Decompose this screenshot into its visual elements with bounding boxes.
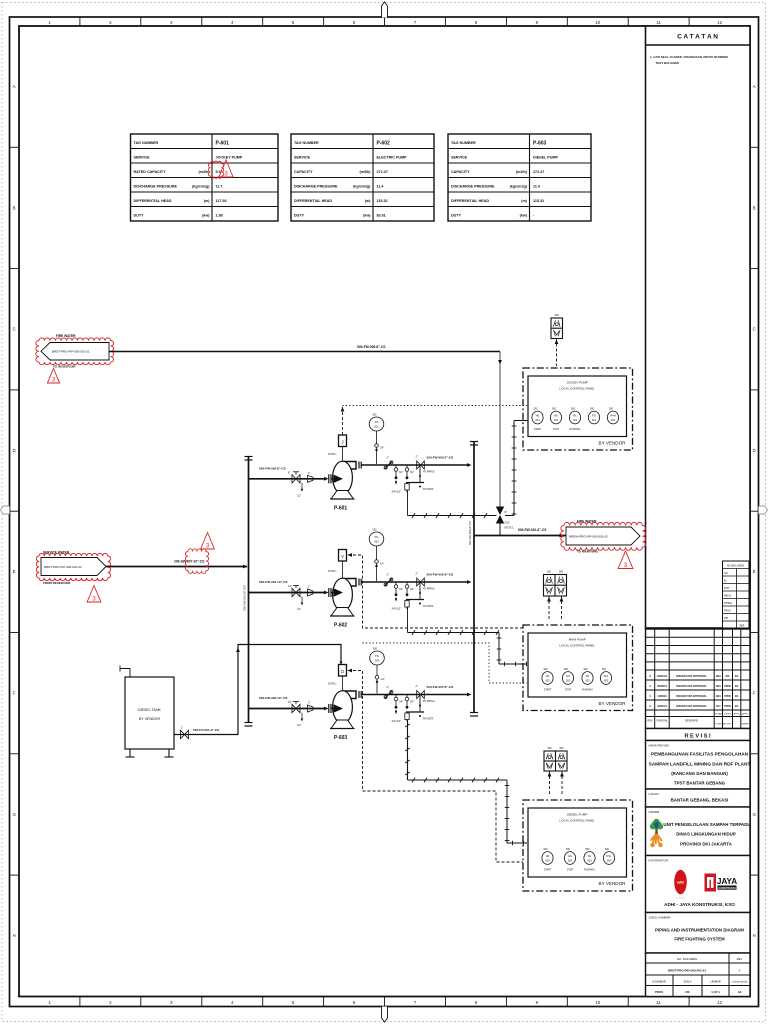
svg-text:10": 10"	[288, 700, 292, 704]
svg-text:RL: RL	[586, 674, 590, 678]
svg-text:(kg/cm2g): (kg/cm2g)	[353, 185, 371, 189]
svg-text:500-FW-005-8"-CS: 500-FW-005-8"-CS	[427, 573, 454, 577]
svg-text:PG: PG	[375, 654, 379, 658]
svg-text:BY VENDOR: BY VENDOR	[139, 717, 161, 721]
svg-text:INST: INST	[724, 587, 730, 590]
svg-text:500: 500	[560, 747, 565, 750]
revision history table	[646, 629, 751, 729]
jaya logo	[705, 874, 717, 892]
P-601 power riser	[513, 421, 515, 516]
discharge header line	[473, 441, 475, 713]
svg-text:DIFFERENTIAL HEAD: DIFFERENTIAL HEAD	[451, 199, 489, 203]
svg-text:8": 8"	[505, 510, 507, 514]
svg-text:START: START	[544, 689, 552, 692]
csc valve	[496, 507, 504, 516]
ruler column ticks and numbers	[79, 17, 81, 26]
svg-text:10: 10	[595, 20, 600, 25]
svg-text:PIPING: PIPING	[724, 602, 732, 605]
svg-text:JUDUL GAMBAR :: JUDUL GAMBAR :	[649, 916, 673, 920]
svg-text:V: V	[341, 554, 344, 559]
svg-text:500: 500	[548, 747, 553, 750]
svg-text:ISSUED FOR APPROVAL: ISSUED FOR APPROVAL	[676, 694, 707, 698]
diesel panel annunciators	[544, 751, 567, 771]
svg-text:500-FW-002-8"-CS: 500-FW-002-8"-CS	[259, 466, 286, 470]
catatan box	[646, 26, 751, 628]
svg-text:ADA: ADA	[716, 675, 721, 678]
svg-text:H: H	[13, 933, 16, 938]
svg-text:500: 500	[605, 848, 610, 851]
svg-text:500: 500	[552, 408, 557, 411]
svg-text:HS: HS	[536, 414, 540, 418]
pump P-602	[342, 579, 357, 587]
svg-text:DA: DA	[735, 685, 739, 688]
svg-text:11: 11	[657, 20, 662, 25]
fw down arrow	[498, 360, 502, 365]
svg-text:272.47: 272.47	[533, 170, 544, 174]
svg-text:BY VENDOR: BY VENDOR	[599, 701, 627, 706]
svg-text:NOTE 1: NOTE 1	[505, 527, 515, 530]
svg-text:adhi: adhi	[677, 881, 684, 885]
revision triangle fw inlet	[47, 369, 59, 384]
svg-text:UNIT PENGELOLAAN SAMPAH TERPAD: UNIT PENGELOLAAN SAMPAH TERPADU	[663, 822, 750, 827]
svg-text:PROVINSI DKI JAKARTA: PROVINSI DKI JAKARTA	[680, 842, 732, 847]
owner box	[646, 807, 751, 856]
svg-text:BY VENDOR: BY VENDOR	[599, 881, 627, 886]
svg-text:LOCAL CONTROL PANEL: LOCAL CONTROL PANEL	[559, 644, 595, 648]
svg-text:500: 500	[547, 571, 552, 574]
svg-text:SERVICE: SERVICE	[134, 156, 151, 160]
svg-text:HS: HS	[546, 674, 550, 678]
svg-text:RUNNING: RUNNING	[584, 870, 595, 872]
svg-text:C: C	[13, 327, 16, 332]
svg-text:DUTY: DUTY	[134, 214, 145, 218]
svg-text:001: 001	[374, 424, 379, 428]
svg-text:PA INSTR: PA INSTR	[423, 718, 434, 721]
svg-text:200-SW-007-10"-CS: 200-SW-007-10"-CS	[174, 560, 205, 564]
svg-text:(kw): (kw)	[202, 214, 210, 218]
svg-text:2": 2"	[416, 455, 418, 459]
svg-text:LOCAL CONTROL PANEL: LOCAL CONTROL PANEL	[559, 387, 595, 391]
service water flag	[41, 558, 106, 576]
svg-text:500-FW-009-8"-CS: 500-FW-009-8"-CS	[468, 521, 472, 545]
svg-text:PAH: PAH	[610, 414, 615, 418]
P-602 power riser	[498, 633, 500, 665]
svg-text:HS: HS	[568, 854, 572, 858]
svg-text:001: 001	[535, 418, 540, 422]
redline index mini table	[723, 561, 750, 628]
svg-text:ISSUED FOR APPROVAL: ISSUED FOR APPROVAL	[676, 674, 707, 678]
svg-text:3/4"x1/2": 3/4"x1/2"	[392, 720, 402, 723]
svg-text:500: 500	[586, 848, 591, 851]
svg-text:2": 2"	[387, 685, 389, 689]
svg-text:12: 12	[717, 1000, 722, 1005]
svg-text:B: B	[13, 205, 16, 210]
svg-text:500: 500	[609, 408, 614, 411]
svg-text:(kw): (kw)	[520, 214, 528, 218]
svg-text:TO MAIN RING: TO MAIN RING	[577, 550, 599, 554]
suction header bottom break	[245, 722, 253, 724]
svg-text:F: F	[753, 691, 756, 696]
diesel tank vent	[120, 669, 130, 678]
pressure gauge PG-002	[369, 532, 384, 546]
svg-text:1/4": 1/4"	[381, 678, 385, 681]
catatan header line	[646, 44, 751, 46]
svg-text:1/4": 1/4"	[380, 563, 384, 566]
diesel tank legs	[129, 749, 131, 757]
outlet line	[474, 535, 566, 537]
svg-text:500: 500	[602, 668, 607, 671]
svg-text:P-601: P-601	[334, 506, 348, 512]
svg-text:RL: RL	[588, 854, 592, 858]
svg-text:500-FW-007-8"-CS: 500-FW-007-8"-CS	[427, 685, 454, 689]
svg-text:003: 003	[607, 858, 612, 862]
fuel oil line	[174, 645, 341, 735]
svg-text:PAL: PAL	[604, 674, 609, 678]
diesel pump local control panel	[523, 800, 633, 891]
svg-text:1.88: 1.88	[216, 214, 223, 218]
svg-text:002: 002	[545, 678, 550, 682]
svg-text:DUTY: DUTY	[294, 214, 305, 218]
svg-text:500-FW-006-10"-CS: 500-FW-006-10"-CS	[259, 696, 287, 700]
svg-text:003: 003	[375, 658, 380, 662]
svg-text:LOCAL CONTROL PANEL: LOCAL CONTROL PANEL	[559, 819, 595, 823]
svg-text:NS: NS	[686, 990, 690, 994]
svg-text:002: 002	[566, 678, 571, 682]
svg-text:PIPIN: PIPIN	[724, 685, 731, 688]
svg-text:500-SW-001-10"-CS: 500-SW-001-10"-CS	[243, 585, 247, 611]
svg-text:NOTE 1: NOTE 1	[328, 570, 337, 573]
svg-text:ADA: ADA	[716, 695, 721, 698]
sw label cloud	[185, 549, 208, 574]
svg-text:NOTE 1: NOTE 1	[328, 683, 337, 686]
revisi band	[646, 729, 751, 741]
service water cloud	[36, 553, 110, 580]
discharge line P-603	[362, 694, 469, 696]
suction branch P-603	[249, 708, 326, 710]
svg-text:ISSUED FOR APPROVAL: ISSUED FOR APPROVAL	[676, 684, 707, 688]
svg-text:R E V I S I: R E V I S I	[684, 734, 711, 740]
main pump local control panel	[523, 625, 633, 711]
svg-text:OWNER :: OWNER :	[649, 810, 661, 814]
svg-text:001: 001	[554, 418, 559, 422]
svg-text:CAPACITY: CAPACITY	[294, 170, 313, 174]
svg-text:SERVICE: SERVICE	[451, 156, 468, 160]
PS signal dotted	[363, 643, 528, 683]
svg-text:DIFFERENTIAL HEAD: DIFFERENTIAL HEAD	[294, 199, 332, 203]
discharge header bottom break	[470, 712, 478, 714]
P-602 drain line	[408, 632, 500, 634]
svg-text:29/01/22: 29/01/22	[657, 675, 667, 678]
svg-text:001: 001	[611, 418, 616, 422]
discharge header top break	[470, 441, 478, 443]
svg-text:500: 500	[566, 848, 571, 851]
svg-text:500-FW-008-8"-CS: 500-FW-008-8"-CS	[357, 345, 386, 349]
svg-text:BRDT-PRO-PID-500-001-01: BRDT-PRO-PID-500-001-01	[668, 969, 706, 973]
svg-text:C: C	[753, 327, 756, 332]
svg-text:RL: RL	[573, 414, 577, 418]
svg-text:3": 3"	[308, 702, 310, 705]
svg-text:PEMBANGUNAN FASILITAS PENGOLAH: PEMBANGUNAN FASILITAS PENGOLAHAN	[651, 752, 749, 757]
revision cloud on 5.6 value	[208, 161, 223, 178]
svg-text:117.93: 117.93	[216, 199, 227, 203]
D signal dashes	[348, 671, 523, 863]
svg-text:START: START	[534, 428, 542, 431]
svg-text:3/4": 3/4"	[399, 471, 403, 474]
svg-text:E: E	[13, 569, 16, 574]
svg-text:REV: REV	[647, 720, 652, 723]
svg-text:DIGAM: DIGAM	[715, 713, 722, 716]
svg-text:11.7: 11.7	[216, 185, 223, 189]
diesel annunciator signals	[549, 771, 551, 796]
suction branch P-602	[249, 592, 326, 594]
svg-text:DIESEL PUMP: DIESEL PUMP	[533, 156, 558, 160]
document number block	[646, 953, 751, 997]
svg-text:1": 1"	[181, 726, 183, 730]
svg-text:FROM RESERVOIR: FROM RESERVOIR	[43, 581, 71, 585]
revision triangle outlet	[618, 551, 633, 569]
svg-text:(m): (m)	[365, 199, 372, 203]
jockey alarm annunciator	[551, 318, 563, 339]
main annunciator signals	[548, 596, 550, 621]
svg-text:PIPIN: PIPIN	[724, 705, 731, 708]
svg-text:3/4": 3/4"	[399, 588, 403, 591]
svg-text:1. CAR SEAL CLOSED, DIGUNAKAN: 1. CAR SEAL CLOSED, DIGUNAKAN UNTUK RUNN…	[650, 55, 729, 59]
svg-text:NO. DOKUMEN: NO. DOKUMEN	[677, 957, 697, 961]
svg-text:5.6: 5.6	[216, 170, 221, 174]
svg-text:RUNNING: RUNNING	[582, 690, 593, 692]
spec table P-601	[131, 134, 279, 221]
svg-text:MAIN PUMP: MAIN PUMP	[569, 638, 586, 642]
svg-text:BRDW-PRO-PIP-500-001-02: BRDW-PRO-PIP-500-001-02	[569, 534, 608, 538]
svg-text:SKALA: SKALA	[683, 981, 691, 984]
svg-text:115.32: 115.32	[377, 199, 388, 203]
P-601 drain line	[408, 515, 497, 517]
svg-text:D: D	[341, 669, 344, 674]
svg-text:F: F	[13, 691, 16, 696]
svg-text:BRDT-PRO-PIP-300-001-02: BRDT-PRO-PIP-300-001-02	[44, 565, 82, 569]
svg-text:PIPING AND INSTRUMENTATION DIA: PIPING AND INSTRUMENTATION DIAGRAM	[655, 928, 744, 933]
svg-text:KONTRAKTOR: KONTRAKTOR	[715, 723, 731, 726]
svg-text:8": 8"	[288, 470, 290, 474]
nama proyek box	[646, 741, 751, 790]
P-603 drain line	[407, 720, 409, 781]
svg-text:G: G	[13, 812, 16, 817]
pump P-603	[342, 691, 357, 699]
kontraktor box	[646, 856, 751, 913]
svg-text:PG: PG	[375, 535, 379, 539]
svg-text:500-FW-004-10"-CS: 500-FW-004-10"-CS	[259, 580, 287, 584]
svg-text:PU PIPING: PU PIPING	[423, 589, 435, 591]
svg-text:BRDT-PRO-PIP-500-001-01: BRDT-PRO-PIP-500-001-01	[52, 350, 90, 354]
svg-text:MECH: MECH	[724, 595, 731, 598]
svg-text:500: 500	[559, 571, 564, 574]
svg-text:TEST BULANAN: TEST BULANAN	[656, 61, 679, 65]
svg-text:RATED CAPACITY: RATED CAPACITY	[134, 170, 167, 174]
svg-text:TAG NUMBER: TAG NUMBER	[294, 141, 319, 145]
svg-text:P-602: P-602	[334, 623, 348, 629]
jockey pump local control panel	[523, 368, 633, 450]
svg-text:RUNNING: RUNNING	[570, 429, 581, 431]
svg-text:DIESEL TANK: DIESEL TANK	[138, 708, 162, 712]
svg-text:002: 002	[585, 678, 590, 682]
svg-text:TO RESERVOIR: TO RESERVOIR	[53, 365, 76, 369]
fuel oil valve	[181, 730, 189, 738]
pump P-601	[342, 462, 357, 470]
svg-text:DIPER: DIPER	[724, 714, 731, 716]
svg-text:002: 002	[374, 539, 379, 543]
svg-text:JOCKEY PUMP: JOCKEY PUMP	[216, 156, 243, 160]
svg-text:001: 001	[592, 418, 597, 422]
svg-text:TAG NUMBER: TAG NUMBER	[451, 141, 476, 145]
svg-text:H: H	[753, 933, 756, 938]
svg-text:3/4": 3/4"	[410, 701, 414, 704]
svg-text:UKURAN KERTAS: UKURAN KERTAS	[732, 981, 749, 984]
svg-text:KONTRAKTOR :: KONTRAKTOR :	[649, 859, 670, 863]
svg-text:11: 11	[657, 1000, 662, 1005]
adhi logo	[674, 870, 687, 894]
owner tree logo	[650, 824, 656, 830]
svg-text:HS: HS	[546, 854, 550, 858]
left centering mark	[1, 506, 10, 514]
svg-text:3/4": 3/4"	[399, 701, 403, 704]
svg-text:E: E	[753, 569, 756, 574]
svg-text:PU PIPING: PU PIPING	[423, 472, 435, 474]
suction header line	[248, 456, 250, 722]
svg-text:3/4"x1/2": 3/4"x1/2"	[392, 491, 402, 494]
svg-text:A: A	[753, 84, 756, 89]
svg-text:500: 500	[373, 529, 378, 532]
svg-text:D: D	[13, 448, 16, 453]
svg-text:1/2": 1/2"	[297, 724, 301, 727]
svg-text:500: 500	[555, 314, 560, 317]
svg-text:(m3/h): (m3/h)	[359, 170, 371, 174]
svg-text:500: 500	[373, 648, 378, 651]
svg-text:(kw): (kw)	[363, 214, 371, 218]
svg-text:STOP: STOP	[567, 870, 574, 872]
svg-text:ELECTRIC PUMP: ELECTRIC PUMP	[377, 156, 408, 160]
diesel driver box D	[339, 665, 347, 677]
svg-text:TAG NUMBER: TAG NUMBER	[134, 141, 159, 145]
svg-text:P-603: P-603	[334, 735, 348, 741]
svg-text:JAYA: JAYA	[717, 877, 737, 886]
svg-text:1 OF 1: 1 OF 1	[711, 990, 720, 994]
svg-text:PIB: PIB	[724, 617, 728, 620]
svg-text:500: 500	[564, 668, 569, 671]
suction header top break	[245, 456, 253, 458]
svg-text:OWNER: OWNER	[741, 724, 749, 726]
svg-text:DESKRIPSI: DESKRIPSI	[685, 720, 699, 723]
lokasi box	[646, 789, 751, 807]
svg-text:1/2": 1/2"	[297, 494, 301, 497]
bottom centering mark	[382, 1007, 388, 1023]
svg-text:PA INSTR: PA INSTR	[423, 488, 434, 491]
svg-text:ADA: ADA	[716, 685, 721, 688]
svg-text:3": 3"	[308, 586, 310, 589]
svg-text:2": 2"	[416, 684, 418, 688]
svg-text:ADHI - JAYA KONSTRUKSI, KSO: ADHI - JAYA KONSTRUKSI, KSO	[664, 902, 735, 907]
svg-text:11.4: 11.4	[377, 185, 385, 189]
svg-text:APPR: APPR	[734, 713, 740, 716]
svg-text:3": 3"	[308, 472, 310, 475]
svg-text:DISCHARGE PRESSURE: DISCHARGE PRESSURE	[294, 185, 338, 189]
P-603 power riser	[506, 780, 508, 843]
svg-text:DUTY: DUTY	[451, 214, 462, 218]
svg-text:NO DWG INDEX: NO DWG INDEX	[727, 565, 745, 567]
svg-text:PROS: PROS	[724, 610, 731, 613]
fire water inlet flag	[41, 343, 109, 361]
svg-text:BANTAR GEBANG, BEKASI: BANTAR GEBANG, BEKASI	[671, 798, 729, 803]
svg-text:ISSUED FOR APPROVAL: ISSUED FOR APPROVAL	[676, 704, 707, 708]
svg-text:DA: DA	[735, 675, 739, 678]
sw arrow into header	[243, 565, 248, 569]
jockey annunciator signal	[556, 339, 558, 367]
svg-text:JOCKEY PUMP: JOCKEY PUMP	[566, 381, 587, 385]
spec table P-603	[448, 134, 591, 221]
svg-text:(RANCANG DAN BANGUN): (RANCANG DAN BANGUN)	[671, 771, 728, 776]
svg-text:AIC: AIC	[724, 572, 728, 575]
fire water top line	[109, 351, 500, 353]
main panel annunciators	[544, 575, 567, 597]
svg-text:TPST BANTAR GEBANG: TPST BANTAR GEBANG	[674, 781, 726, 786]
svg-text:12: 12	[717, 20, 722, 25]
svg-text:83.61: 83.61	[377, 214, 386, 218]
jockey driver box J	[339, 435, 347, 447]
svg-text:NOTE 1: NOTE 1	[328, 453, 337, 456]
right centering mark	[759, 506, 768, 514]
svg-text:(m3/h): (m3/h)	[516, 170, 528, 174]
top centering mark	[382, 2, 388, 18]
svg-text:18/01/21: 18/01/21	[657, 705, 667, 708]
revision triangle sw label	[201, 533, 215, 550]
outlet line arrow	[560, 534, 565, 538]
svg-text:D: D	[753, 448, 756, 453]
svg-text:DISCHARGE PRESSURE: DISCHARGE PRESSURE	[451, 185, 495, 189]
svg-text:26/06/21: 26/06/21	[657, 685, 667, 688]
svg-text:P-601: P-601	[216, 141, 230, 147]
diesel tank	[125, 677, 174, 749]
discharge line P-601	[362, 464, 469, 466]
svg-text:500-FW-003-2"-CS: 500-FW-003-2"-CS	[427, 456, 454, 460]
pressure gauge PG-003	[370, 651, 385, 665]
fuel oil arrow into D	[340, 662, 343, 666]
svg-text:PG: PG	[592, 414, 596, 418]
svg-text:KONSTRUKSI: KONSTRUKSI	[718, 886, 735, 890]
svg-text:NAMA PROYEK :: NAMA PROYEK :	[649, 744, 671, 748]
svg-text:115.32: 115.32	[533, 199, 544, 203]
discharge line P-602	[362, 581, 469, 583]
svg-text:HS: HS	[554, 414, 558, 418]
svg-text:DIFFERENTIAL HEAD: DIFFERENTIAL HEAD	[134, 199, 172, 203]
svg-text:A: A	[13, 84, 16, 89]
svg-text:PIPIN: PIPIN	[724, 695, 731, 698]
fire water outlet flag	[566, 527, 640, 545]
svg-text:DIESEL PUMP: DIESEL PUMP	[567, 813, 587, 817]
svg-text:3/4"x1/2": 3/4"x1/2"	[392, 608, 402, 611]
svg-text:2": 2"	[387, 456, 389, 460]
svg-text:DISCHARGE PRESSURE: DISCHARGE PRESSURE	[134, 185, 178, 189]
svg-text:10": 10"	[288, 584, 292, 588]
svg-text:3/4": 3/4"	[410, 588, 414, 591]
svg-text:500: 500	[373, 414, 378, 417]
svg-text:G: G	[753, 812, 756, 817]
svg-text:CAPACITY: CAPACITY	[451, 170, 470, 174]
J signal dashed up	[342, 407, 344, 435]
svg-text:PSL: PSL	[607, 854, 612, 858]
svg-text:DIGAMBAR: DIGAMBAR	[652, 981, 666, 984]
fuel oil arrow up	[236, 648, 240, 653]
svg-text:003: 003	[587, 858, 592, 862]
svg-text:DINAS LINGKUNGAN HIDUP: DINAS LINGKUNGAN HIDUP	[676, 832, 736, 837]
